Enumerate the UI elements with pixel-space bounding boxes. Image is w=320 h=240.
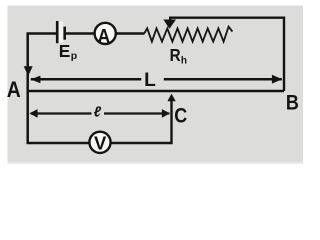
wire C vertical down to bottom wire xyxy=(111,100,172,143)
svg-text:A: A xyxy=(7,77,21,102)
dimension L right arrowhead xyxy=(272,75,282,84)
current direction arrowhead into node A xyxy=(24,66,33,76)
svg-text:R: R xyxy=(170,45,181,65)
battery E_p long plate xyxy=(56,21,59,43)
svg-text:C: C xyxy=(174,104,187,128)
wire battery to ammeter xyxy=(66,32,95,35)
dimension L left arrowhead xyxy=(31,76,41,84)
jockey arrowhead up at node C xyxy=(167,94,175,102)
dimension l right arrowhead xyxy=(162,109,170,118)
svg-text:B: B xyxy=(286,91,299,115)
ammeter U1 circle xyxy=(95,23,116,44)
dimension l left arrowhead xyxy=(29,109,37,118)
dimension arrow l line xyxy=(31,112,170,114)
battery E_p short plate xyxy=(63,27,66,40)
rheostat R_h zigzag resistor xyxy=(144,27,232,42)
potentiometer wire A to B xyxy=(28,90,284,93)
rheostat wiper arrowhead xyxy=(163,20,176,29)
panel background xyxy=(8,6,304,165)
svg-text:ℓ: ℓ xyxy=(94,105,102,121)
svg-text:L: L xyxy=(144,70,156,91)
svg-text:h: h xyxy=(181,55,187,66)
svg-text:p: p xyxy=(71,50,77,62)
svg-text:E: E xyxy=(59,41,71,61)
rheostat wiper line to right vertical wire down to B xyxy=(170,18,284,91)
wire ammeter to rheostat xyxy=(116,32,144,35)
svg-text:V: V xyxy=(94,132,107,153)
dimension arrow L line xyxy=(31,78,282,81)
svg-text:A: A xyxy=(98,26,111,48)
wire left-vertical + top wire + bottom wire (node A trunk) xyxy=(28,34,90,144)
voltmeter U2 circle xyxy=(89,132,110,153)
battery E_p gap halo xyxy=(59,22,63,43)
